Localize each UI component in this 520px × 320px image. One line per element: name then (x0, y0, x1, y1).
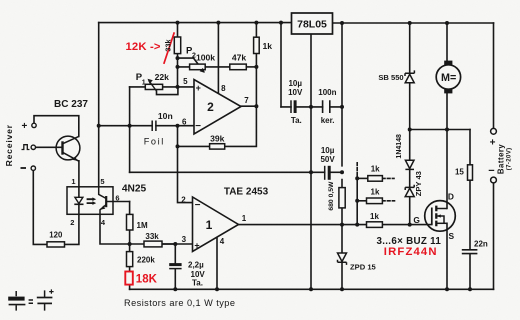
receiver minus glyph (21, 167, 27, 169)
wire node to 33k(h) (130, 243, 144, 245)
capacitor 10u 50V plates (324, 166, 326, 180)
mosfet gate plate (431, 208, 433, 225)
transistor BC237 base bar (61, 141, 63, 154)
resistor 15 body (468, 165, 473, 180)
battery terminal + circle (491, 128, 497, 134)
mosfet source stub (436, 222, 447, 224)
wire 1k ladder column (356, 173, 358, 225)
wire drain branch row (410, 129, 470, 131)
wire op1 pin3 row (162, 243, 193, 245)
motor M circle (436, 65, 460, 89)
battery terminal - circle (491, 177, 497, 183)
wire receiver plus to BC237 collector (34, 116, 79, 137)
motor brushes (444, 61, 452, 66)
diode SB550 schottky (405, 74, 414, 83)
mosfet drain stub (436, 208, 447, 210)
wire 220k/18K column (129, 244, 131, 289)
wire 1k ladder column dashed top (356, 163, 358, 172)
wire 33k column upper (P-network) (177, 23, 179, 87)
wire op2 output (241, 105, 256, 107)
wire 10n/pin6 row (99, 125, 194, 127)
transistor BC237 collector line (63, 136, 79, 143)
wire batt+ column (341, 23, 343, 289)
wire top rail left segment (5V) (99, 22, 292, 24)
legend electrolytic symbol A (8, 291, 25, 311)
potentiometer P1 22k body (145, 84, 162, 89)
capacitor 2,2u Ta plates (169, 263, 181, 266)
wire diode column (SB550/1N4148/ZPY43) (409, 23, 411, 225)
wire 120 to 4N25 pin2 (65, 214, 79, 244)
op-amp 2 triangle (194, 80, 241, 135)
wire 2.2u column (174, 244, 176, 289)
wire 47k to 1k junction (246, 66, 256, 68)
wire 1k row2 dashed stub (382, 200, 394, 202)
wire 1k row1 dashed stub (382, 177, 394, 179)
receiver terminal pulse circle (31, 145, 35, 149)
zener ZPD15 (338, 253, 347, 262)
IC 78L05 regulator box (292, 13, 333, 34)
wire left rail down to 4N25 pin5 (98, 23, 100, 187)
potentiometer P2 100k body (190, 64, 206, 70)
wire op1 output / gate row (239, 224, 432, 226)
wire P1 ground column (129, 87, 131, 172)
legend equals sign (29, 300, 33, 303)
wire bottom ground rail (130, 288, 494, 290)
optocoupler LED (78, 187, 80, 215)
diode 1N4148 (405, 160, 414, 168)
transistor BC237 emitter line with arrow (63, 152, 79, 161)
resistor 1k pullup body (254, 37, 260, 53)
wire P1 wiper tie loop (157, 87, 178, 95)
wire receiver minus down to 120 (33, 170, 47, 244)
mosfet channel segments (435, 206, 437, 227)
wire 1k row1 (357, 177, 368, 179)
capacitor 22n plates (462, 250, 478, 254)
capacitor 10u Ta plates (290, 100, 292, 113)
wire 1k/47k node down to op2 output (255, 67, 257, 106)
resistor 120 body (47, 242, 65, 247)
optocoupler 4N25 box (67, 187, 113, 215)
wire 39k feedback loop (178, 106, 257, 146)
transistor BC237 circle (56, 136, 80, 160)
wire battery minus drop (493, 183, 495, 289)
legend electrolytic symbol B (37, 289, 54, 310)
wire 4N25 pin6 to 1M (113, 201, 130, 203)
wire P2 row (178, 66, 230, 68)
red strike over 33k (164, 32, 175, 64)
red 18K resistor box (125, 272, 133, 285)
wire op1 pin4 (216, 237, 218, 289)
wire P1 terminals (130, 86, 194, 88)
receiver pulse glyph (22, 145, 30, 150)
wire BC237 emitter to 4N25 pin1 (78, 161, 80, 187)
wire top rail right segment (battery+) (333, 22, 494, 24)
resistor 220k body (127, 252, 133, 267)
capacitor 100n ker plates (323, 100, 330, 113)
wire battery+ drop to terminal (493, 23, 495, 128)
resistor 39k body (210, 144, 225, 149)
wire P2 wiper tie (178, 58, 204, 71)
resistor 47k body (230, 64, 247, 70)
capacitor 10n foil plates (152, 121, 156, 132)
mosfet BUZ11 circle (425, 201, 456, 232)
wire 4N25 pin4 to node row (100, 214, 130, 244)
resistor 1k row2 body (367, 198, 383, 204)
wire 10u50V right plate to batt column (330, 171, 342, 173)
wire inverting chain vertical (pin6 to op1 pin2) (178, 126, 193, 203)
wire receiver pulse input to base (36, 146, 63, 148)
resistor 33k (12K) vertical body (174, 37, 180, 54)
mosfet body arrow (438, 216, 445, 223)
receiver terminal + circle (32, 123, 36, 127)
wire cap supply column left (280, 23, 282, 107)
wire op2 pin8 (217, 23, 219, 94)
potentiometer P1 wiper line (149, 80, 157, 91)
wire 78L05 ground column (310, 34, 312, 289)
potentiometer P2 wiper arrowhead (200, 68, 205, 73)
resistor 680 0,5W body (339, 188, 345, 208)
wire 1k column (255, 23, 257, 67)
wire 1M column (129, 202, 131, 245)
wire long ground row (130, 171, 325, 173)
op-amp 1 triangle (193, 197, 239, 252)
wire motor/drain column (446, 23, 448, 289)
resistor 1k row1 body (368, 176, 383, 182)
optocoupler light arrows (87, 199, 94, 203)
zener ZPY43 (405, 188, 414, 196)
paper noise overlay (0, 0, 1, 1)
resistor 1M body (127, 214, 133, 230)
wire snubber column (15 ohm + 22n) (469, 130, 471, 290)
receiver terminal - circle (31, 166, 35, 170)
resistor 33k horizontal body (144, 241, 162, 247)
optocoupler phototransistor (99, 187, 107, 199)
wire 1k row2 (357, 200, 366, 202)
wire cap row (281, 106, 342, 108)
resistor 1k row3 body (367, 222, 383, 228)
wire 33k(h) to pin3 node (162, 243, 175, 245)
